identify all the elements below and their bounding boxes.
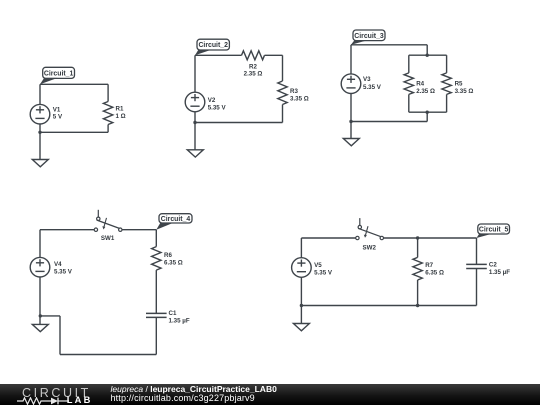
svg-text:Circuit_3: Circuit_3 (354, 33, 384, 40)
wire bottom rail circuit 4 (60, 354, 156, 356)
wire top-right segment circuit 4 (122, 229, 156, 231)
node parallel top junction (426, 54, 429, 57)
wire top rail circuit 1 (40, 83, 108, 85)
wire R7 bottom lead (417, 280, 419, 306)
wire top-left segment circuit 5 (301, 237, 355, 239)
resistor R4 (404, 73, 413, 95)
svg-text:Circuit_4: Circuit_4 (161, 216, 191, 223)
wire bottom rail circuit 3 (351, 121, 427, 123)
resistor R1 (103, 102, 112, 125)
ground circuit 5 (293, 324, 309, 331)
node junction circuit 1 (38, 131, 41, 134)
svg-text:R5: R5 (455, 81, 463, 88)
resistor R2 (242, 51, 265, 60)
wire R5 top lead (446, 55, 448, 73)
wire down from parallel bottom (426, 112, 428, 121)
wire bottom rail circuit 5 (301, 305, 476, 307)
wire V3 top lead (350, 45, 352, 74)
svg-text:SW1: SW1 (101, 235, 115, 242)
svg-text:V3: V3 (363, 76, 371, 83)
wire V3 bottom lead (350, 94, 352, 139)
wire R3 bottom lead (282, 105, 284, 123)
svg-text:Circuit_5: Circuit_5 (479, 227, 509, 234)
svg-text:1.35 µF: 1.35 µF (169, 318, 190, 325)
wire top-left segment circuit 4 (40, 229, 94, 231)
label Circuit_3 callout (351, 30, 385, 45)
label Circuit_1 callout (40, 67, 75, 84)
wire bottom riser circuit 4 (59, 316, 61, 355)
node bottom junction R7 circuit 5 (416, 304, 419, 307)
node junction circuit 4 (39, 314, 42, 317)
capacitor C2 (466, 264, 487, 268)
wire V5 top lead (300, 238, 302, 258)
svg-text:5.35 V: 5.35 V (363, 84, 382, 91)
wire R6 to C1 (155, 270, 157, 313)
voltage source V4 (30, 257, 50, 277)
wire top rail circuit 3 (351, 44, 427, 46)
svg-text:R6: R6 (164, 252, 172, 259)
svg-text:R3: R3 (290, 88, 298, 95)
wire R1 top lead (107, 84, 109, 101)
wire V4 bottom lead (39, 277, 41, 324)
svg-text:R2: R2 (249, 64, 257, 71)
label Circuit_4 callout (156, 214, 192, 230)
label Circuit_5 callout (477, 224, 510, 238)
wire down to parallel top bar (426, 45, 428, 55)
resistor R6 (152, 247, 161, 271)
svg-text:2.35 Ω: 2.35 Ω (416, 88, 435, 95)
voltage source V5 (292, 258, 312, 278)
wire V1 top lead (39, 84, 41, 104)
svg-text:R7: R7 (425, 262, 433, 269)
label Circuit_2 callout (195, 39, 229, 55)
svg-text:V1: V1 (53, 106, 61, 113)
svg-text:R4: R4 (416, 81, 424, 88)
switch SW1 (94, 210, 122, 232)
ground circuit 4 (32, 324, 48, 331)
ground circuit 3 (343, 139, 359, 146)
wire parallel top bar (409, 54, 447, 56)
voltage source V1 (30, 104, 50, 124)
svg-text:V2: V2 (208, 97, 216, 104)
resistor R3 (278, 81, 287, 105)
svg-text:V5: V5 (314, 262, 322, 269)
wire top-left segment circuit 2 (195, 54, 242, 56)
svg-text:C1: C1 (169, 310, 177, 317)
svg-text:1 Ω: 1 Ω (116, 113, 126, 120)
voltage source V3 (341, 74, 361, 94)
svg-text:6.35 Ω: 6.35 Ω (164, 260, 183, 267)
wire R5 bottom lead (446, 94, 448, 112)
wire bottom rail circuit 2 (195, 122, 283, 124)
switch SW2 (356, 218, 384, 240)
wire R7 top lead (417, 238, 419, 257)
svg-text:R1: R1 (116, 106, 124, 113)
node top junction circuit 5 (416, 236, 419, 239)
wire parallel bottom bar (409, 111, 447, 113)
resistor R5 (442, 73, 451, 95)
wire R1 bottom lead (107, 125, 109, 133)
svg-text:3.35 Ω: 3.35 Ω (455, 88, 474, 95)
wire V2 top lead (194, 55, 196, 92)
svg-text:Circuit_2: Circuit_2 (198, 42, 228, 49)
svg-text:C2: C2 (489, 262, 497, 269)
wire V2 bottom lead (194, 112, 196, 150)
node junction circuit 3 (349, 120, 352, 123)
wire bottom rail circuit 1 (40, 131, 108, 133)
svg-text:6.35 Ω: 6.35 Ω (425, 270, 444, 277)
wire V4 top lead (39, 230, 41, 258)
wire node to riser circuit 4 (40, 315, 60, 317)
wire node to C2 branch (418, 237, 477, 239)
svg-text:5.35 V: 5.35 V (54, 269, 73, 276)
wire R4 bottom lead (408, 94, 410, 112)
wire top-right segment circuit 2 (265, 54, 283, 56)
svg-text:5.35 V: 5.35 V (208, 104, 227, 111)
wire R6 top lead (155, 230, 157, 247)
wire R4 top lead (408, 55, 410, 73)
node bottom junction V5 circuit 5 (300, 304, 303, 307)
wire R3 top lead (282, 55, 284, 81)
wire C1 bottom lead (155, 317, 157, 354)
wire switch to node circuit 5 (384, 237, 418, 239)
svg-text:V4: V4 (54, 261, 62, 268)
svg-text:5.35 V: 5.35 V (314, 270, 333, 277)
ground circuit 2 (187, 150, 203, 157)
svg-text:SW2: SW2 (362, 244, 376, 251)
wire ground stem circuit 1 (39, 132, 41, 159)
wire V1 bottom lead (39, 124, 41, 132)
node junction circuit 2 (193, 121, 196, 124)
capacitor C1 (146, 313, 167, 317)
node parallel bottom junction (426, 111, 429, 114)
svg-text:5 V: 5 V (53, 114, 63, 121)
svg-text:Circuit_1: Circuit_1 (44, 70, 74, 77)
voltage source V2 (185, 92, 205, 112)
svg-text:3.35 Ω: 3.35 Ω (290, 95, 309, 102)
resistor R7 (413, 257, 422, 280)
wire C2 top lead (476, 238, 478, 264)
svg-text:1.35 µF: 1.35 µF (489, 269, 510, 276)
wire V5 bottom lead (300, 277, 302, 323)
ground circuit 1 (32, 160, 48, 167)
svg-text:2.35 Ω: 2.35 Ω (244, 71, 263, 78)
wire C2 bottom lead (476, 269, 478, 306)
